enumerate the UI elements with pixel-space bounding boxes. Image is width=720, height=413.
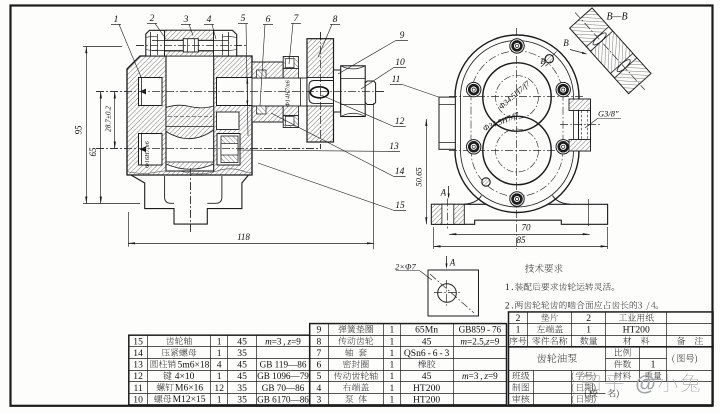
svg-text:14: 14	[395, 167, 405, 177]
centerline relief valve axis	[136, 45, 248, 47]
svg-text:1: 1	[516, 325, 521, 336]
svg-text:10: 10	[395, 58, 405, 68]
bolt circle centreline stadium	[471, 51, 563, 197]
svg-text:Φ16H7/n6: Φ16H7/n6	[144, 140, 151, 168]
svg-text:G3/8″: G3/8″	[598, 109, 619, 119]
svg-text:A: A	[449, 258, 456, 268]
svg-text:35: 35	[237, 348, 247, 359]
svg-text:1: 1	[586, 325, 591, 336]
svg-text:QSn6 - 6 - 3: QSn6 - 6 - 3	[404, 348, 450, 359]
casing inner wall line	[461, 41, 574, 208]
centerline driven gear vertical	[320, 32, 322, 149]
svg-text:1: 1	[390, 394, 395, 405]
svg-text:11: 11	[392, 75, 401, 85]
gear pitch circles	[496, 76, 539, 119]
svg-text:1: 1	[217, 394, 222, 405]
cover plate hatched sections	[165, 30, 214, 40]
svg-text:10: 10	[133, 394, 143, 405]
svg-text:8: 8	[333, 15, 338, 25]
svg-text:7: 7	[317, 348, 322, 359]
svg-text:5: 5	[317, 371, 322, 382]
title block	[509, 347, 714, 405]
shaft diameter arrows	[247, 78, 249, 106]
svg-text:85: 85	[517, 235, 527, 245]
svg-text:4: 4	[317, 383, 322, 394]
svg-text:9: 9	[317, 325, 322, 336]
svg-text:2×Φ7: 2×Φ7	[395, 262, 416, 272]
svg-text:B: B	[540, 56, 545, 66]
svg-text:3: 3	[183, 15, 189, 25]
svg-text:GB 6170—86: GB 6170—86	[257, 394, 309, 404]
driven gear (item 8)	[307, 39, 334, 142]
svg-text:M12×15: M12×15	[170, 395, 205, 405]
horizontal centreline lower gear	[449, 150, 585, 152]
svg-text:GB 1096—79: GB 1096—79	[257, 371, 309, 381]
stud shank	[152, 40, 228, 42]
svg-text:70: 70	[522, 223, 532, 233]
upper left bearing bore	[139, 78, 163, 106]
gear hub bore	[307, 78, 334, 107]
pedestal wing fillets	[464, 196, 482, 205]
BOM header row	[509, 337, 526, 345]
svg-text:45: 45	[422, 371, 432, 382]
spring washer (item 9)	[334, 70, 341, 112]
dowel pin top right (item 13)	[545, 55, 553, 63]
hidden tooth root line	[168, 116, 212, 118]
svg-text:4: 4	[207, 15, 212, 25]
svg-text:B: B	[563, 38, 569, 48]
svg-text:GB859 - 76: GB859 - 76	[459, 325, 502, 335]
right nut on stud	[228, 32, 230, 56]
parts list middle block items 9-3	[310, 324, 507, 405]
svg-text:15: 15	[133, 336, 143, 347]
gland cap screw bosses (item 7)	[283, 57, 298, 69]
watermark zhihu	[582, 373, 624, 391]
svg-text:4: 4	[217, 360, 222, 371]
left suction port boss	[439, 97, 455, 149]
shaft nut (item 10)	[341, 66, 366, 117]
dimension 50.65 vertical	[426, 119, 428, 224]
pump mounting base	[431, 204, 607, 224]
svg-text:B—B: B—B	[606, 12, 627, 23]
svg-text:2 .: 2 .	[505, 300, 514, 310]
svg-text:95: 95	[74, 125, 84, 135]
svg-text:1: 1	[217, 336, 222, 347]
foot hole centre right extension	[588, 199, 590, 226]
svg-text:GB 70—86: GB 70—86	[262, 383, 305, 393]
dowel pin bottom left (item 13)	[482, 178, 490, 186]
svg-text:HT200: HT200	[623, 325, 650, 336]
svg-text:1 .: 1 .	[505, 282, 514, 292]
svg-text:1: 1	[390, 360, 395, 371]
vertical centreline of front view	[516, 28, 518, 249]
svg-text:GB 119—86: GB 119—86	[260, 360, 307, 370]
lower left bearing bore phi16H7	[139, 134, 163, 166]
svg-text:5: 5	[241, 14, 246, 24]
svg-text:@: @	[635, 373, 655, 396]
svg-text:1: 1	[217, 348, 222, 359]
dimension 95 vertical	[83, 46, 122, 48]
packing rings (item 6)	[257, 70, 267, 78]
lower right bearing bore with bush	[217, 134, 240, 166]
svg-text:28.7±0.2: 28.7±0.2	[104, 106, 113, 132]
dimension 28.7 vertical	[114, 92, 116, 149]
svg-text:4×10: 4×10	[172, 372, 194, 382]
svg-text:A: A	[440, 188, 447, 198]
svg-text:HT200: HT200	[413, 394, 440, 405]
horizontal centreline upper gear	[449, 96, 585, 98]
packing gland nut (item 14)	[252, 62, 283, 78]
gear mesh region hatch	[166, 105, 214, 138]
svg-text:m=3 , z=9: m=3 , z=9	[265, 336, 301, 346]
parts list right block items 2-1 and header	[509, 312, 714, 347]
svg-text:HT200: HT200	[413, 383, 440, 394]
gear face edge line	[166, 126, 214, 128]
svg-text:1: 1	[651, 360, 656, 371]
gear chamber bores phi34.5	[483, 63, 551, 131]
svg-text:11: 11	[133, 383, 142, 394]
stud middle collar	[183, 39, 198, 52]
dimension 118 horizontal	[128, 212, 130, 247]
G3/8 thread label	[585, 119, 598, 129]
svg-text:12: 12	[395, 117, 405, 127]
svg-text:45: 45	[237, 371, 247, 382]
centerline upper shaft axis	[96, 91, 386, 93]
title block lower rows	[509, 381, 714, 383]
svg-text:12: 12	[133, 371, 143, 382]
dowel diagonal centreline	[541, 50, 558, 67]
svg-text:m=3 , z=9: m=3 , z=9	[462, 371, 498, 381]
svg-text:35: 35	[237, 383, 247, 394]
svg-text:5m6×18: 5m6×18	[175, 360, 209, 370]
svg-text:1: 1	[390, 371, 395, 382]
svg-text:2: 2	[586, 313, 591, 324]
svg-text:1: 1	[390, 348, 395, 359]
gear keyway with key (item 12)	[309, 81, 334, 104]
svg-text:1: 1	[390, 383, 395, 394]
base left sectioned corner with foot bolt hole	[431, 204, 464, 224]
upper right shaft passage	[217, 78, 255, 106]
shaft through gland white band	[252, 78, 307, 106]
shaft end	[365, 81, 375, 105]
cover screws M6 (item 11) x6	[510, 39, 524, 53]
dimension 70 horizontal	[449, 234, 589, 236]
svg-text:50.65: 50.65	[414, 167, 424, 187]
left nut on stud	[150, 32, 152, 56]
svg-text:12: 12	[214, 383, 224, 394]
svg-text:15: 15	[395, 201, 405, 211]
centerlines overlay	[96, 91, 386, 93]
centerline bottom port	[190, 168, 192, 232]
svg-text:65Mn: 65Mn	[415, 325, 438, 336]
svg-text:1: 1	[390, 336, 395, 347]
parts list left block items 15-10	[129, 335, 310, 405]
svg-text:m=2.5,z=9: m=2.5,z=9	[460, 336, 499, 346]
svg-text:1: 1	[390, 325, 395, 336]
title block drawing name cell 齿轮油泵	[605, 347, 607, 370]
break line across body bottom	[127, 169, 252, 174]
dimension 65 vertical	[100, 92, 102, 204]
svg-text:6: 6	[317, 360, 322, 371]
long stud cover block on top (items 2-4)	[146, 30, 237, 56]
dimension 85 horizontal	[434, 246, 608, 248]
A-A foot hole detail	[428, 270, 479, 316]
svg-text:9: 9	[400, 31, 405, 41]
svg-text:1: 1	[217, 371, 222, 382]
svg-text:Φ14H7/n6: Φ14H7/n6	[285, 79, 292, 107]
svg-text:3: 3	[317, 394, 322, 405]
svg-text:45: 45	[237, 360, 247, 371]
svg-text:14: 14	[133, 348, 143, 359]
pump body sectioned (item 3)	[127, 56, 252, 175]
svg-text:2: 2	[150, 14, 155, 24]
svg-text:35: 35	[237, 394, 247, 405]
outlet channel in right wall	[217, 112, 240, 130]
right discharge port G3/8	[579, 99, 591, 151]
B-B section view (rotated bar top right)	[564, 2, 656, 99]
centerline lower gear axis	[96, 148, 318, 150]
svg-text:118: 118	[237, 232, 250, 242]
svg-text:45: 45	[422, 336, 432, 347]
pump body cavity / drive gear band	[166, 56, 214, 171]
svg-text:6: 6	[266, 15, 271, 25]
pump casing outline (stadium)	[455, 35, 579, 212]
lower gear bottom edge and tooth arc	[166, 162, 214, 164]
svg-text:13: 13	[389, 142, 399, 152]
svg-text:45: 45	[237, 336, 247, 347]
svg-text:M6×16: M6×16	[173, 384, 204, 394]
pump foot / inlet flange	[131, 175, 249, 224]
svg-text:1: 1	[114, 15, 119, 25]
svg-text:2: 2	[516, 313, 521, 324]
svg-text:8: 8	[317, 336, 322, 347]
technical requirements heading	[525, 264, 563, 273]
svg-text:13: 13	[133, 360, 143, 371]
